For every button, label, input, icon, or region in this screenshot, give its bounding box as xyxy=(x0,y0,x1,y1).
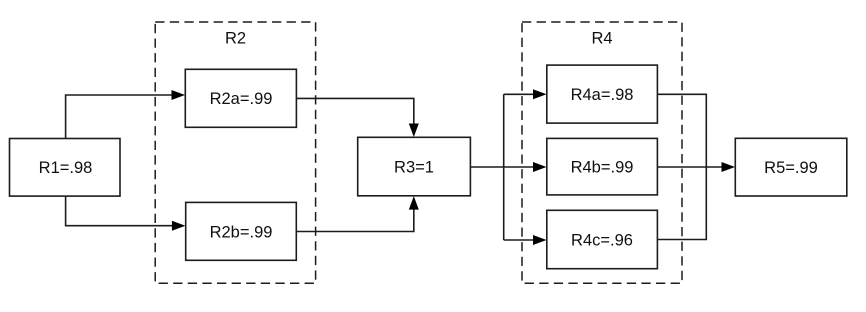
container R2 xyxy=(155,22,315,283)
wire branch to R4c xyxy=(504,235,547,245)
svg-text:R1=.98: R1=.98 xyxy=(39,159,93,177)
block R4c xyxy=(547,210,658,268)
wire R4b to R5 xyxy=(657,162,735,172)
block R4b xyxy=(547,138,658,195)
svg-text:R4: R4 xyxy=(591,30,612,48)
svg-text:R2a=.99: R2a=.99 xyxy=(210,90,273,108)
wire R4a to merge xyxy=(657,94,706,167)
block R5 xyxy=(735,138,847,196)
svg-text:R3=1: R3=1 xyxy=(394,159,434,177)
branch vertical bus xyxy=(503,94,505,240)
wire R4c to merge xyxy=(657,167,706,240)
wire R3 to branch node xyxy=(470,166,503,168)
wire R1 to R2b xyxy=(66,196,186,231)
wire R2a to R3 xyxy=(296,98,418,137)
block R2b xyxy=(186,202,297,260)
wire branch to R4b xyxy=(504,162,547,172)
block R1 xyxy=(10,139,121,197)
svg-text:R2b=.99: R2b=.99 xyxy=(210,223,273,241)
svg-text:R4c=.96: R4c=.96 xyxy=(571,231,633,249)
block R2a xyxy=(185,69,296,127)
svg-text:R5=.99: R5=.99 xyxy=(764,159,818,177)
wire R2b to R3 xyxy=(296,196,419,231)
container R4 xyxy=(522,22,682,283)
svg-text:R2: R2 xyxy=(225,30,246,48)
svg-text:R4a=.98: R4a=.98 xyxy=(571,86,634,104)
svg-text:R4b=.99: R4b=.99 xyxy=(571,159,634,177)
wire branch to R4a xyxy=(504,89,547,99)
block R4a xyxy=(547,65,658,123)
block R3 xyxy=(358,137,471,196)
wire R1 to R2a xyxy=(66,90,185,139)
